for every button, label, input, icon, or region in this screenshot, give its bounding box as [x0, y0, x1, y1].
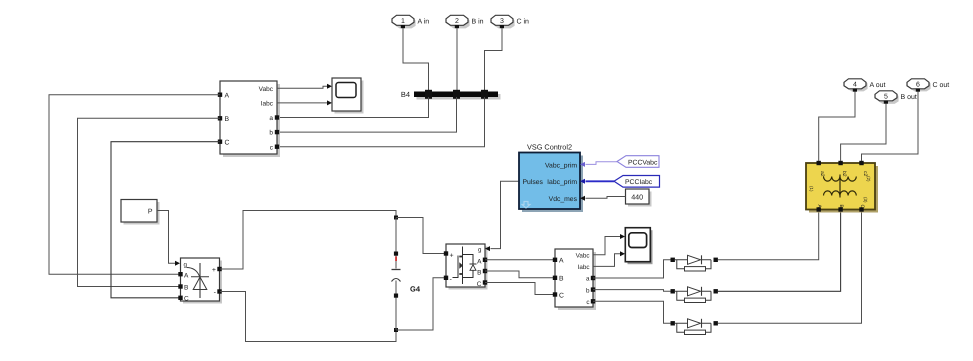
wire meas1 Iabc to scope1: [277, 102, 328, 104]
subsystem VSG Control2: [519, 143, 583, 213]
wire meas2 Vabc to scope2: [593, 237, 621, 255]
thyristor icon: [199, 263, 201, 298]
wire port5 to transformer b2: [841, 104, 886, 162]
output port 5 (B out): [875, 91, 917, 104]
svg-text:C out: C out: [933, 82, 950, 89]
wire port3 to bus B4: [485, 28, 503, 91]
diode block D3: [671, 319, 718, 335]
svg-text:c: c: [586, 299, 589, 306]
constant 440: [626, 189, 652, 207]
output port 4 (A out): [844, 79, 886, 92]
wire 440 to VSG Vdc_mes: [586, 197, 626, 199]
wire rectifier + to DC top rail: [220, 211, 396, 270]
input port 2 (B in): [446, 15, 484, 28]
wire VSG Pulses to inverter g: [491, 181, 520, 248]
wire meas2 Iabc to scope2: [593, 254, 621, 267]
svg-text:Vdc_mes: Vdc_mes: [549, 196, 578, 203]
wire inverter A to meas2 A: [485, 259, 555, 261]
svg-text:C: C: [559, 292, 564, 299]
svg-text:+: +: [450, 252, 454, 259]
wire PCCVabc to VSG Vabc_prim: [586, 162, 618, 165]
svg-text:VSG Control2: VSG Control2: [527, 143, 572, 152]
svg-text:(1): (1): [809, 186, 814, 192]
svg-text:C: C: [477, 281, 482, 288]
svg-text:B: B: [225, 116, 230, 123]
three-phase V-I measurement block 2: [553, 249, 596, 310]
svg-text:+: +: [212, 267, 216, 274]
wire feedback phase B (meas1 B to rectifier B): [78, 118, 221, 286]
wire meas1 b to bus: [277, 97, 457, 132]
wire feedback phase A (meas1 A to rectifier A): [49, 95, 220, 275]
svg-text:A: A: [184, 272, 189, 279]
IGBT icon: [462, 247, 464, 285]
svg-text:Vabc: Vabc: [576, 252, 590, 259]
capacitor G4: [392, 218, 421, 331]
svg-text:Vabc_prim: Vabc_prim: [545, 162, 577, 169]
diode block D1: [671, 255, 718, 271]
svg-text:Iabc: Iabc: [578, 264, 590, 271]
From tag PCCVabc: [617, 156, 659, 168]
scope Scope1: [332, 78, 364, 114]
wire D1 out to transformer A: [718, 212, 819, 260]
wire meas2 a to diode D1: [593, 260, 671, 278]
wire port1 to bus B4: [403, 28, 429, 91]
wire meas1 a to bus: [277, 97, 429, 118]
svg-text:P: P: [148, 209, 153, 216]
svg-text:C in: C in: [517, 18, 530, 26]
svg-text:B out: B out: [901, 94, 917, 101]
svg-text:2: 2: [455, 18, 459, 25]
svg-text:3: 3: [500, 18, 504, 25]
svg-text:b2: b2: [841, 171, 847, 177]
wire D3 out to transformer C: [718, 212, 862, 324]
wire port6 to transformer c2: [862, 92, 919, 162]
svg-text:5: 5: [884, 94, 888, 101]
wire DC+ to inverter +: [396, 218, 446, 254]
wire meas2 c to diode D3: [593, 301, 671, 323]
input port 1 (A in): [392, 15, 429, 28]
pulse source block P: [121, 200, 160, 225]
three-phase V-I measurement block 1: [218, 81, 280, 157]
svg-text:g: g: [478, 247, 482, 254]
svg-text:C: C: [225, 140, 230, 147]
svg-text:A: A: [225, 93, 230, 100]
svg-text:B4: B4: [401, 90, 410, 99]
svg-text:B in: B in: [472, 18, 484, 26]
thyristor rectifier bridge: [178, 258, 222, 304]
svg-text:B: B: [559, 276, 564, 283]
wire meas1 c to bus: [277, 97, 485, 147]
svg-text:B: B: [477, 269, 481, 276]
wire P to rectifier gate g: [157, 211, 176, 264]
svg-text:PCCVabc: PCCVabc: [628, 159, 658, 166]
diode block D2: [671, 287, 718, 303]
svg-text:A: A: [559, 258, 564, 265]
svg-text:Iabc: Iabc: [261, 101, 274, 108]
wire port4 to transformer a2: [819, 92, 855, 162]
svg-text:a: a: [586, 276, 590, 283]
wire inverter B to meas2 B: [485, 271, 555, 278]
svg-text:b: b: [269, 130, 273, 137]
output port 6 (C out): [907, 79, 949, 92]
node DC+ junction: [394, 216, 398, 220]
svg-text:4: 4: [853, 82, 857, 89]
wire DC- to inverter -: [396, 278, 446, 330]
wire feedback phase C (meas1 C to rectifier C): [111, 142, 220, 298]
input port 3 (C in): [491, 15, 529, 28]
svg-text:C: C: [859, 205, 865, 209]
svg-text:6: 6: [916, 82, 920, 89]
wire meas2 b to diode D2: [593, 290, 671, 292]
wire port2 to bus B4: [456, 28, 458, 91]
wire meas1 Vabc to scope1: [277, 86, 328, 88]
IGBT inverter bridge: [444, 244, 488, 290]
svg-text:PCCIabc: PCCIabc: [625, 179, 653, 186]
three-phase transformer block: [806, 161, 878, 213]
wire PCCIabc to VSG Iabc_prim: [586, 180, 615, 182]
From tag PCCIabc: [614, 176, 660, 188]
svg-text:A in: A in: [418, 18, 430, 26]
svg-text:1: 1: [401, 18, 405, 25]
svg-text:G4: G4: [410, 285, 421, 294]
svg-text:a: a: [269, 115, 273, 122]
svg-text:A out: A out: [870, 82, 886, 89]
svg-text:a2: a2: [819, 171, 825, 177]
svg-text:A: A: [477, 259, 482, 266]
svg-text:Pulses: Pulses: [523, 179, 544, 186]
svg-text:440: 440: [631, 193, 643, 202]
svg-text:B: B: [184, 285, 188, 292]
bus B4: [401, 90, 501, 100]
svg-text:Iabc_prim: Iabc_prim: [547, 179, 577, 186]
svg-text:(3): (3): [863, 197, 868, 203]
svg-text:C: C: [184, 296, 189, 303]
transformer windings: [839, 175, 841, 198]
svg-text:(2): (2): [866, 176, 871, 182]
node DC- junction: [394, 328, 398, 332]
svg-text:Vabc: Vabc: [259, 86, 274, 93]
wire rectifier - to DC bottom rail: [220, 292, 396, 342]
wire D2 out to transformer B: [718, 212, 841, 292]
scope Scope2: [625, 228, 652, 265]
wire inverter C to meas2 C: [485, 283, 555, 295]
svg-text:b: b: [586, 287, 590, 294]
